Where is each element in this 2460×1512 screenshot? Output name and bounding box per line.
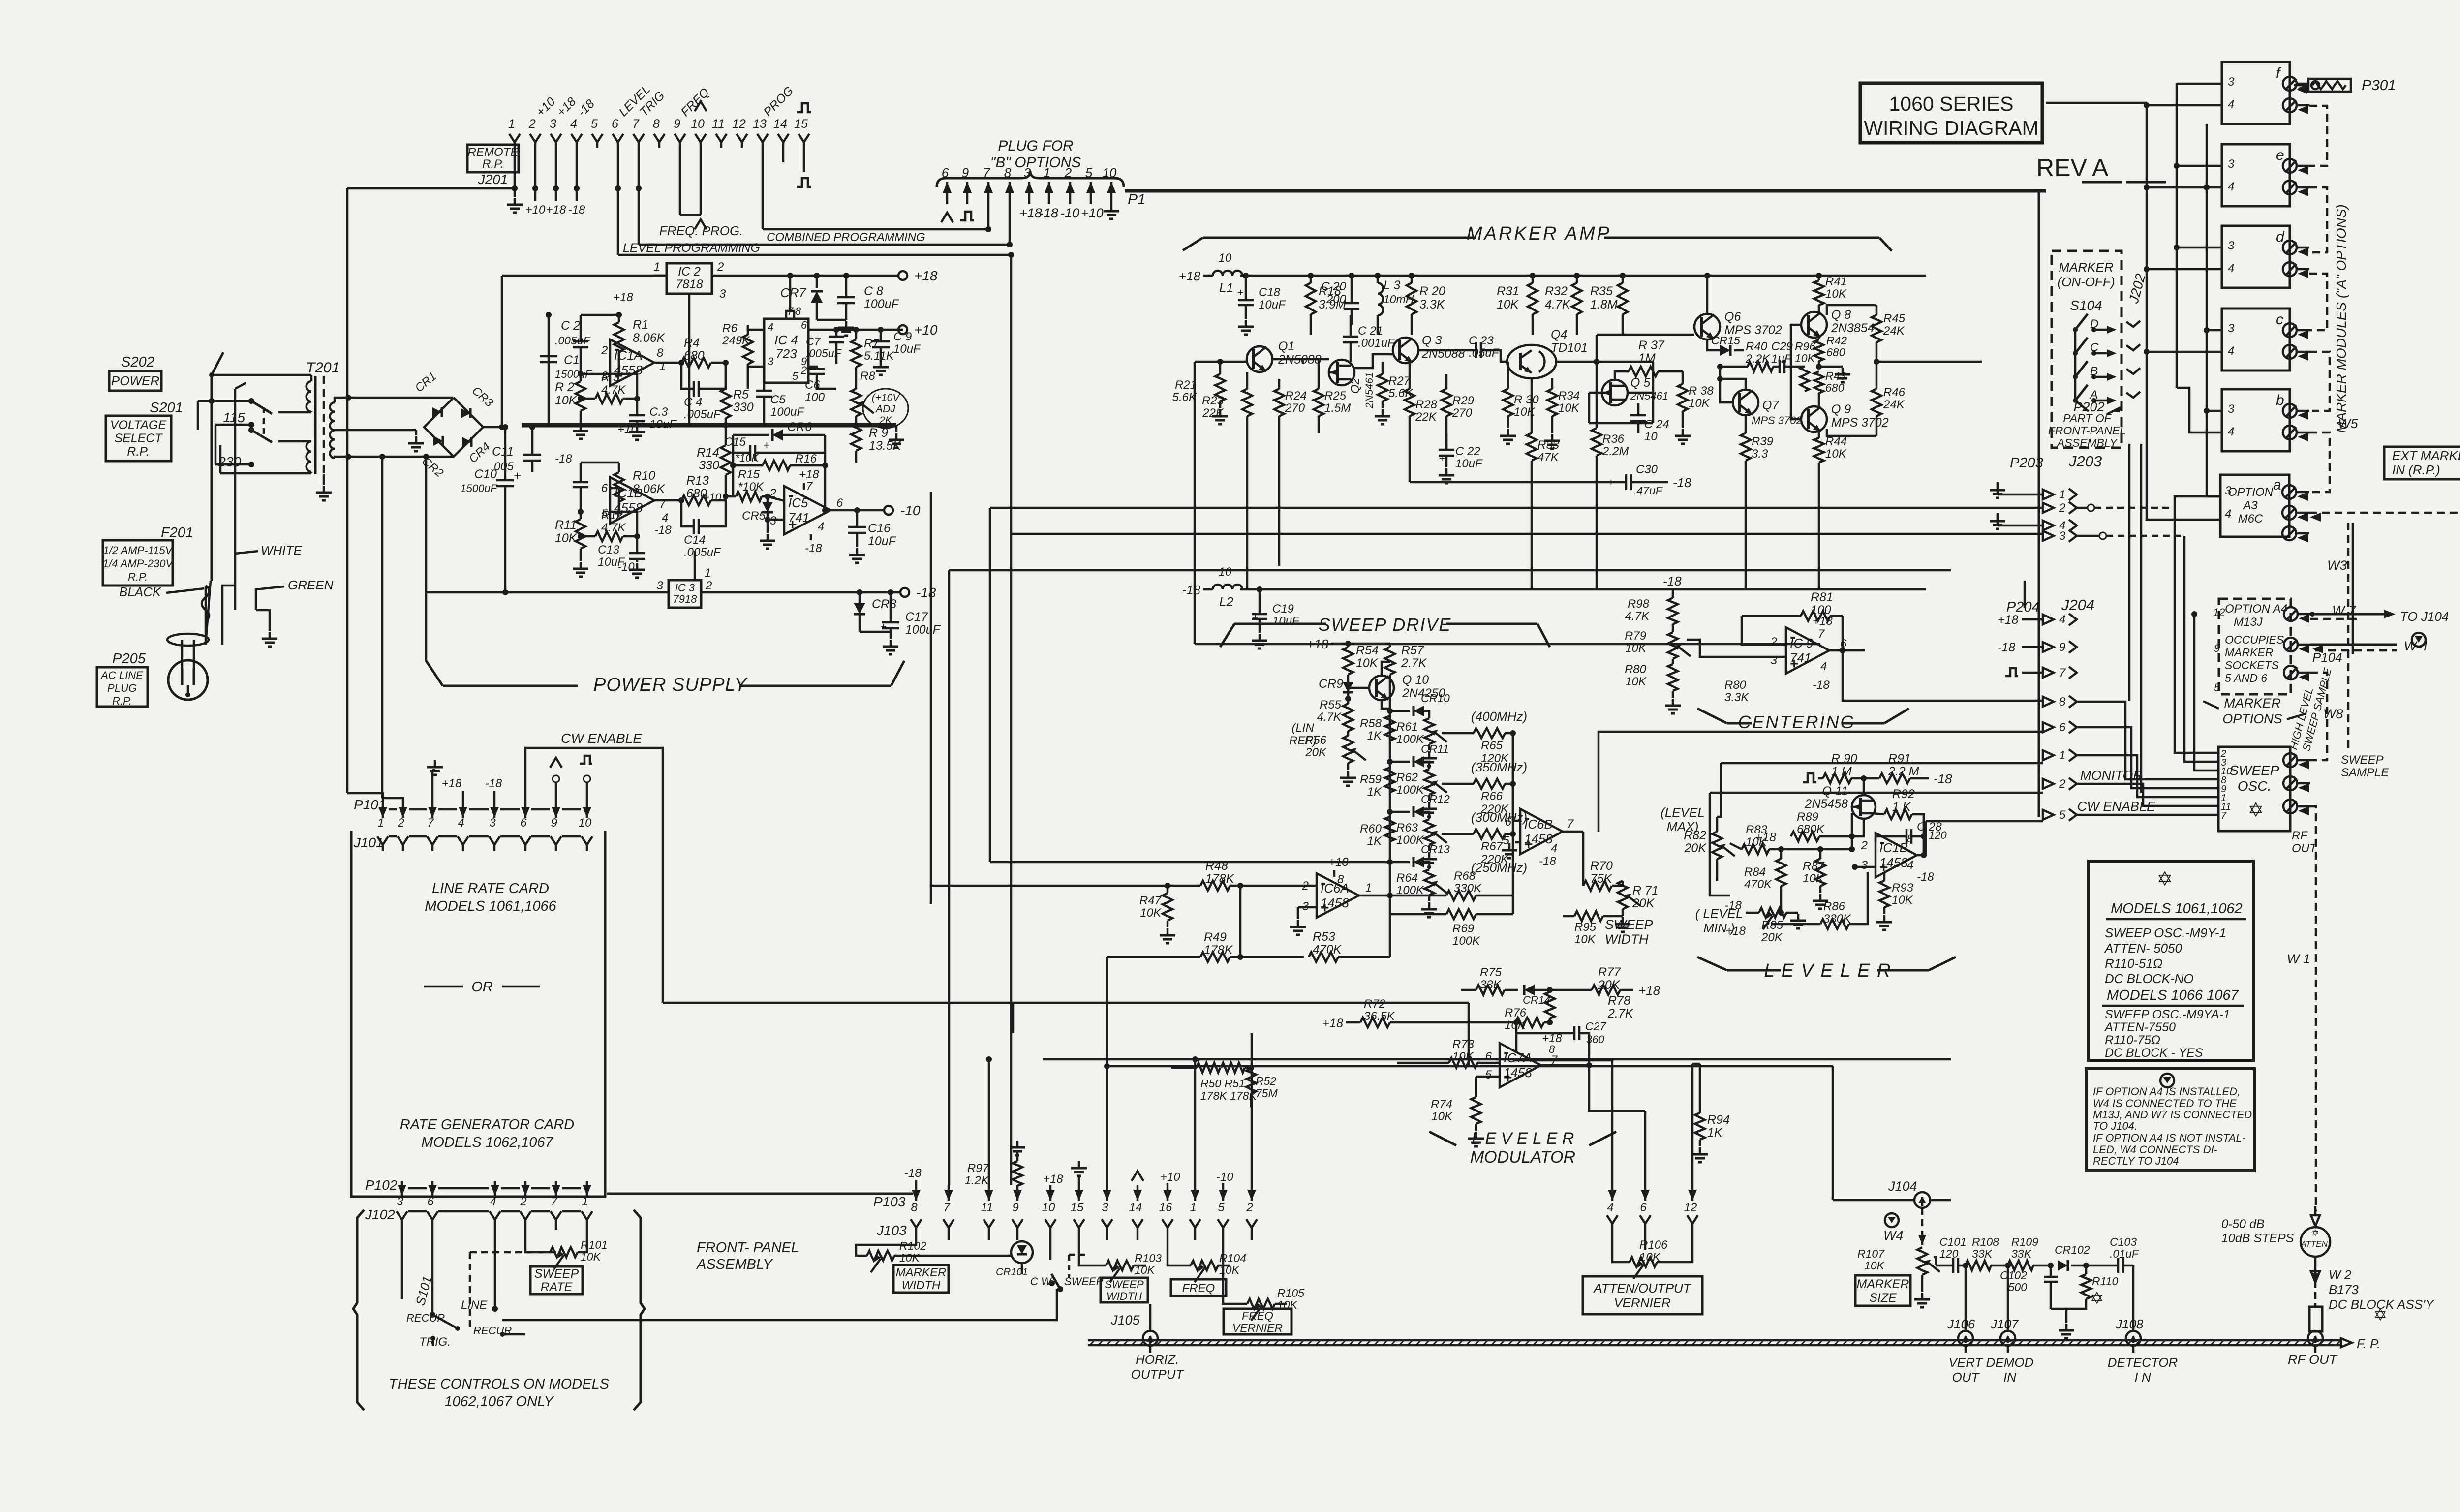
C22 capacitor bbox=[1439, 450, 1454, 456]
svg-text:10K: 10K bbox=[555, 394, 578, 407]
L3 inductor bbox=[1378, 283, 1383, 315]
svg-text:33K: 33K bbox=[1972, 1247, 1993, 1260]
svg-text:P103: P103 bbox=[873, 1194, 906, 1209]
svg-text:CENTERING: CENTERING bbox=[1738, 712, 1855, 732]
title box bbox=[1860, 83, 2042, 143]
svg-text:R53: R53 bbox=[1313, 930, 1335, 944]
svg-text:R33: R33 bbox=[1537, 438, 1560, 452]
W4 wire bbox=[2310, 644, 2397, 646]
svg-text:24K: 24K bbox=[1883, 324, 1905, 338]
svg-text:W5: W5 bbox=[2338, 416, 2358, 431]
svg-text:2: 2 bbox=[800, 364, 807, 376]
svg-text:-18: -18 bbox=[1673, 475, 1691, 490]
svg-text:ADJ: ADJ bbox=[875, 403, 895, 415]
SWEEP RATE box bbox=[530, 1266, 583, 1294]
svg-text:4: 4 bbox=[458, 816, 464, 830]
svg-text:+10: +10 bbox=[1081, 206, 1104, 220]
W7 nabla symbol bbox=[2412, 633, 2426, 647]
svg-text:CR13: CR13 bbox=[1421, 843, 1450, 856]
svg-text:MPS 3702: MPS 3702 bbox=[1831, 416, 1889, 430]
C101 capacitor bbox=[1953, 1258, 1958, 1273]
svg-text:(ON-OFF): (ON-OFF) bbox=[2058, 275, 2115, 289]
svg-text:1: 1 bbox=[582, 1195, 588, 1208]
long wire mid band 2100 bbox=[1012, 1003, 1015, 1033]
svg-text:8: 8 bbox=[911, 1201, 918, 1214]
R105 pot bbox=[1247, 1299, 1275, 1309]
svg-text:(350MHz): (350MHz) bbox=[1471, 760, 1527, 774]
svg-text:4: 4 bbox=[818, 520, 824, 533]
svg-text:10K: 10K bbox=[1746, 835, 1767, 849]
svg-text:1/2 AMP-115V: 1/2 AMP-115V bbox=[103, 544, 174, 556]
Q10 collector wire bbox=[1382, 662, 1390, 675]
P101 pin 9 arrow bbox=[555, 802, 557, 818]
svg-text:1.8M: 1.8M bbox=[1590, 298, 1618, 311]
bridge diode CR2 bbox=[433, 436, 443, 446]
svg-text:2: 2 bbox=[528, 117, 536, 131]
svg-text:7918: 7918 bbox=[673, 593, 698, 605]
svg-text:10: 10 bbox=[1219, 565, 1232, 579]
module a pin4 stub bbox=[2147, 512, 2220, 520]
svg-text:W 2: W 2 bbox=[2329, 1267, 2352, 1282]
svg-text:10K: 10K bbox=[1625, 675, 1647, 688]
IC1B wires bbox=[610, 488, 619, 512]
svg-text:+: + bbox=[1237, 286, 1244, 299]
svg-text:3: 3 bbox=[397, 1195, 403, 1208]
svg-text:b: b bbox=[2276, 392, 2284, 408]
R29 resistor bbox=[1442, 389, 1451, 416]
-10 output terminal bbox=[884, 506, 893, 515]
svg-text:3: 3 bbox=[2228, 239, 2235, 252]
svg-text:+18: +18 bbox=[546, 203, 566, 216]
svg-text:+: + bbox=[1439, 453, 1445, 464]
svg-text:REV: REV bbox=[2036, 154, 2087, 182]
svg-text:.005uF: .005uF bbox=[684, 546, 721, 559]
svg-text:CR9: CR9 bbox=[1319, 677, 1343, 691]
svg-text:ASSEMBLY: ASSEMBLY bbox=[2056, 436, 2118, 449]
svg-text:J108: J108 bbox=[2115, 1317, 2144, 1331]
J201 pin 15 pulse symbol bbox=[797, 103, 811, 112]
R96 resistor bbox=[1800, 367, 1809, 391]
svg-text:J107: J107 bbox=[1990, 1317, 2019, 1331]
bracket left brace bbox=[353, 1210, 364, 1410]
P1 pin 9 arrow bbox=[966, 182, 969, 204]
svg-text:10K: 10K bbox=[1825, 447, 1847, 461]
svg-text:2N3854: 2N3854 bbox=[1831, 321, 1875, 335]
transformer core bbox=[314, 376, 317, 474]
svg-text:6: 6 bbox=[1505, 815, 1512, 829]
svg-text:.47uF: .47uF bbox=[1633, 484, 1663, 497]
P101 pin 1 arrow bbox=[382, 802, 384, 818]
svg-text:1 K: 1 K bbox=[1892, 800, 1911, 814]
coax transmission line bbox=[1088, 1339, 2341, 1342]
+18 output terminal bbox=[898, 271, 907, 280]
long wire J203 pin3 bbox=[1011, 533, 2043, 535]
note nabla symbol bbox=[2160, 1074, 2174, 1087]
marker amp bottom left wires bbox=[1195, 643, 1820, 646]
P103 pin15 ground bbox=[1071, 1161, 1087, 1176]
svg-text:R10: R10 bbox=[633, 469, 655, 483]
svg-text:C101: C101 bbox=[1939, 1235, 1967, 1248]
svg-text:R.P.: R.P. bbox=[112, 695, 132, 707]
svg-text:SWEEP DRIVE: SWEEP DRIVE bbox=[1319, 615, 1452, 635]
R74 resistor bbox=[1471, 1097, 1481, 1124]
IC4 pin6 wire bbox=[808, 329, 903, 331]
svg-text:270: 270 bbox=[1452, 406, 1473, 420]
svg-text:SAMPLE: SAMPLE bbox=[2341, 766, 2389, 779]
R12 resistor bbox=[595, 531, 623, 541]
svg-text:10mH: 10mH bbox=[1384, 293, 1414, 306]
bridge DC out right bbox=[483, 426, 502, 429]
svg-text:6: 6 bbox=[1485, 1050, 1492, 1063]
svg-text:L1: L1 bbox=[1219, 280, 1233, 295]
bridge diode CR1 bbox=[432, 407, 442, 417]
P202 arrow bbox=[2111, 406, 2122, 412]
svg-text:-10: -10 bbox=[1216, 1171, 1233, 1184]
R13 resistor bbox=[681, 495, 711, 505]
R41 resistor bbox=[1814, 280, 1824, 305]
power supply bracket right bbox=[740, 685, 891, 687]
R40 resistor bbox=[1748, 362, 1773, 371]
svg-text:R79: R79 bbox=[1625, 629, 1646, 643]
svg-text:R64: R64 bbox=[1396, 871, 1418, 885]
J101 dashes bbox=[389, 835, 397, 838]
svg-text:ATTEN-7550: ATTEN-7550 bbox=[2104, 1020, 2176, 1034]
P102 dashes bbox=[408, 1187, 427, 1190]
Q5 source box bbox=[1589, 392, 1602, 394]
svg-text:+18: +18 bbox=[799, 468, 819, 481]
svg-text:2: 2 bbox=[601, 344, 608, 357]
svg-text:CR7: CR7 bbox=[780, 285, 807, 300]
connector J201 remote programming header bbox=[509, 134, 520, 142]
svg-text:+10: +10 bbox=[914, 322, 938, 338]
svg-text:6: 6 bbox=[801, 319, 807, 331]
R46 resistor bbox=[1872, 389, 1881, 416]
svg-text:-: - bbox=[1524, 809, 1530, 828]
svg-text:WIRING DIAGRAM: WIRING DIAGRAM bbox=[1864, 117, 2038, 139]
IC1A opamp bbox=[610, 339, 654, 386]
R47 resistor bbox=[1163, 893, 1172, 921]
svg-text:10: 10 bbox=[1042, 1201, 1055, 1214]
svg-text:C 23: C 23 bbox=[1469, 334, 1494, 347]
J103 pin 9 socket bbox=[1012, 1219, 1023, 1228]
svg-text:R108: R108 bbox=[1972, 1235, 1999, 1248]
R92 resistor bbox=[1884, 809, 1912, 819]
svg-text:OPTION A4: OPTION A4 bbox=[2225, 602, 2287, 616]
svg-text:IC 2: IC 2 bbox=[678, 265, 701, 278]
module a pin3 stub bbox=[2207, 472, 2220, 496]
svg-text:3: 3 bbox=[770, 514, 777, 527]
svg-text:16: 16 bbox=[1159, 1201, 1172, 1214]
P1 pin 1 arrow bbox=[1048, 182, 1050, 204]
B options pin 10 ground bbox=[1104, 204, 1119, 219]
svg-text:Q 8: Q 8 bbox=[1831, 308, 1851, 322]
green ground wire bbox=[256, 610, 270, 631]
atten dashed to RF bbox=[2314, 1269, 2317, 1307]
svg-text:ATTEN- 5050: ATTEN- 5050 bbox=[2104, 941, 2183, 956]
svg-text:15: 15 bbox=[1071, 1201, 1084, 1214]
svg-text:14: 14 bbox=[773, 117, 787, 131]
svg-text:5: 5 bbox=[2214, 681, 2220, 694]
svg-text:RF: RF bbox=[2292, 829, 2308, 842]
svg-text:100K: 100K bbox=[1452, 934, 1480, 948]
svg-text:R 2: R 2 bbox=[555, 380, 574, 394]
long wire J204 pin6 bbox=[1599, 732, 2043, 832]
IC6A opamp bbox=[1317, 873, 1359, 918]
R37 resistor bbox=[1629, 367, 1658, 376]
svg-text:10uF: 10uF bbox=[868, 534, 897, 548]
R66 resistor bbox=[1474, 779, 1505, 789]
R79 pot bbox=[1668, 632, 1678, 659]
svg-text:R69: R69 bbox=[1452, 922, 1474, 935]
svg-text:12: 12 bbox=[1684, 1201, 1697, 1214]
svg-text:R110-75Ω: R110-75Ω bbox=[2105, 1033, 2160, 1047]
C18 capacitor bbox=[1238, 300, 1254, 305]
svg-text:AC LINE: AC LINE bbox=[100, 669, 143, 681]
IC1B opamp bbox=[610, 477, 654, 524]
P103 pin 2 arrow bbox=[1251, 1185, 1253, 1201]
svg-text:-18: -18 bbox=[555, 452, 572, 465]
svg-text:2: 2 bbox=[2059, 777, 2065, 791]
P103 pin 9 arrow bbox=[1016, 1185, 1019, 1201]
module f pin3 stub bbox=[2177, 83, 2222, 85]
R10 top wire bbox=[581, 462, 619, 464]
svg-text:PART OF: PART OF bbox=[2063, 412, 2112, 425]
S104 switch A bbox=[2073, 398, 2078, 403]
J104 dashed down bbox=[1921, 1208, 1924, 1245]
svg-text:C30: C30 bbox=[1636, 463, 1658, 476]
R67 resistor bbox=[1474, 829, 1505, 839]
svg-text:P301: P301 bbox=[2362, 77, 2396, 93]
CR13 diode bbox=[1414, 857, 1424, 867]
svg-text:8: 8 bbox=[657, 346, 664, 360]
svg-text:(LIN: (LIN bbox=[1291, 721, 1314, 735]
svg-text:PLUG FOR: PLUG FOR bbox=[998, 138, 1073, 154]
P103 pin 3 arrow bbox=[1106, 1185, 1108, 1201]
module c pin4 stub bbox=[2147, 351, 2222, 353]
svg-text:20K: 20K bbox=[1761, 931, 1783, 944]
svg-text:C16: C16 bbox=[868, 522, 891, 535]
svg-text:C14: C14 bbox=[684, 533, 706, 547]
svg-text:CR5: CR5 bbox=[742, 509, 766, 523]
svg-text:5: 5 bbox=[1085, 165, 1093, 180]
svg-text:IN: IN bbox=[2003, 1370, 2016, 1385]
svg-text:100K: 100K bbox=[1396, 783, 1424, 797]
CR102 diode bbox=[2058, 1260, 2068, 1271]
J201 pin 14 lead bbox=[782, 142, 785, 162]
svg-text:R45: R45 bbox=[1883, 312, 1906, 325]
J102 pin 7 socket bbox=[551, 1211, 561, 1220]
R56 pot bbox=[1343, 736, 1353, 763]
R11 resistor bbox=[576, 519, 585, 549]
svg-text:OUT: OUT bbox=[2292, 842, 2318, 855]
J103 pin 15 socket bbox=[1074, 1219, 1084, 1228]
svg-text:LEVEL PROGRAMMING: LEVEL PROGRAMMING bbox=[623, 241, 760, 255]
svg-text:REMOTE: REMOTE bbox=[468, 146, 519, 159]
R60 resistor bbox=[1385, 817, 1395, 841]
svg-text:B173: B173 bbox=[2329, 1282, 2359, 1297]
J103 pin 5 socket bbox=[1218, 1219, 1229, 1228]
svg-text:100uF: 100uF bbox=[770, 405, 804, 419]
R64 pot bbox=[1424, 869, 1434, 895]
svg-text:3: 3 bbox=[601, 370, 608, 383]
svg-text:10K: 10K bbox=[1625, 642, 1647, 655]
CR12 diode bbox=[1414, 806, 1424, 817]
svg-text:5.6K: 5.6K bbox=[1172, 391, 1197, 404]
marker module c socket arrows bbox=[2298, 330, 2308, 339]
svg-text:-18: -18 bbox=[654, 524, 672, 537]
svg-text:R89: R89 bbox=[1797, 810, 1818, 824]
svg-text:C102: C102 bbox=[2000, 1269, 2027, 1282]
C8 capacitor bbox=[837, 297, 855, 303]
R79 wiper wire bbox=[1687, 640, 1786, 657]
transformer primary upper coil bbox=[307, 381, 311, 412]
J103 pin 14 socket bbox=[1132, 1219, 1143, 1228]
svg-text:MARKER AMP: MARKER AMP bbox=[1467, 223, 1611, 244]
J204 pin 1 bbox=[2043, 750, 2054, 760]
svg-text:R23: R23 bbox=[1202, 394, 1224, 407]
J103 pin 10 socket bbox=[1045, 1219, 1056, 1228]
B options pin8 drop wire bbox=[1009, 204, 1011, 245]
P1 pin 7 arrow bbox=[987, 182, 990, 204]
svg-text:R105: R105 bbox=[1277, 1287, 1304, 1299]
svg-text:R60: R60 bbox=[1360, 822, 1382, 835]
svg-text:+18: +18 bbox=[1179, 269, 1201, 283]
R84 R85 wire bbox=[1780, 898, 1783, 913]
svg-text:1K: 1K bbox=[1367, 834, 1382, 848]
svg-text:-18: -18 bbox=[1724, 899, 1742, 912]
J102 pin 1 socket bbox=[582, 1211, 592, 1220]
R93 resistor bbox=[1879, 881, 1889, 907]
R3 resistor bbox=[595, 394, 623, 403]
svg-text:R56: R56 bbox=[1305, 734, 1327, 747]
svg-text:F. P.: F. P. bbox=[2357, 1336, 2380, 1351]
R85 pot bbox=[1759, 908, 1786, 918]
R30 resistor bbox=[1503, 389, 1513, 416]
C13 capacitor bbox=[629, 553, 645, 559]
svg-text:WIDTH: WIDTH bbox=[902, 1279, 941, 1292]
svg-text:2: 2 bbox=[1861, 839, 1868, 852]
J201 pin 10 ramp symbol below bbox=[695, 219, 707, 229]
marker module b socket upper bbox=[2283, 404, 2297, 418]
svg-text:4: 4 bbox=[662, 511, 668, 525]
J201 freq prog join bbox=[680, 214, 701, 216]
marker amp -18 rail bbox=[1203, 588, 1213, 591]
svg-text:2.2M: 2.2M bbox=[1602, 445, 1629, 458]
J102 pin 6 socket bbox=[427, 1211, 438, 1220]
svg-text:3: 3 bbox=[719, 287, 726, 301]
svg-text:+18: +18 bbox=[442, 777, 462, 790]
svg-text:3.3K: 3.3K bbox=[1724, 691, 1749, 704]
svg-text:2: 2 bbox=[2059, 501, 2065, 515]
svg-text:R86: R86 bbox=[1823, 900, 1845, 913]
P103 pin 16 arrow bbox=[1167, 1185, 1169, 1201]
svg-text:1: 1 bbox=[2059, 749, 2065, 762]
plug leads bbox=[222, 586, 235, 610]
svg-text:3: 3 bbox=[1771, 654, 1778, 667]
svg-text:+18: +18 bbox=[1998, 613, 2019, 627]
svg-text:R59: R59 bbox=[1360, 773, 1382, 786]
svg-text:2.2 M: 2.2 M bbox=[1888, 765, 1919, 778]
svg-text:2.7K: 2.7K bbox=[1607, 1007, 1634, 1020]
svg-text:VERNIER: VERNIER bbox=[1232, 1322, 1283, 1334]
svg-text:CR6: CR6 bbox=[787, 420, 812, 434]
R98 resistor bbox=[1668, 598, 1678, 624]
svg-text:R78: R78 bbox=[1608, 994, 1630, 1008]
marker module e socket lower bbox=[2283, 181, 2297, 194]
P103 pin 15 arrow bbox=[1078, 1185, 1080, 1201]
svg-text:MPS 3702: MPS 3702 bbox=[1752, 414, 1802, 427]
marker options dash bbox=[2203, 701, 2219, 709]
J201 pin 8 stub bbox=[658, 142, 661, 148]
R76 resistor bbox=[1515, 1018, 1544, 1027]
svg-text:VERT: VERT bbox=[1949, 1355, 1984, 1370]
svg-text:-18: -18 bbox=[1998, 641, 2015, 654]
svg-text:CR12: CR12 bbox=[1421, 793, 1450, 805]
EXT MARKER IN box bbox=[2384, 447, 2460, 479]
sweep osc harness bbox=[2077, 702, 2204, 779]
recur long wire bbox=[502, 1289, 1057, 1320]
C10 capacitor bbox=[496, 480, 514, 486]
svg-text:a: a bbox=[2273, 477, 2281, 493]
R83 resistor bbox=[1742, 844, 1769, 854]
J101 pin 6 socket bbox=[520, 836, 531, 845]
module a socket 2 bbox=[2282, 506, 2296, 520]
marker module c socket upper bbox=[2283, 323, 2297, 337]
svg-text:R76: R76 bbox=[1505, 1006, 1527, 1019]
svg-text:20K: 20K bbox=[1305, 746, 1327, 759]
J104 wires bbox=[1833, 1199, 1914, 1202]
svg-text:6: 6 bbox=[836, 496, 843, 510]
J101 pin 7 socket bbox=[427, 836, 438, 845]
svg-text:C1: C1 bbox=[564, 353, 580, 367]
marker amp mid bus bbox=[1195, 361, 1247, 363]
J201 pin 11 stub bbox=[720, 142, 723, 148]
svg-text:7: 7 bbox=[1818, 627, 1825, 641]
svg-text:R42: R42 bbox=[1826, 334, 1847, 347]
CW dashed outline bbox=[1069, 1254, 1088, 1256]
svg-text:Q6: Q6 bbox=[1724, 310, 1741, 324]
svg-text:R4: R4 bbox=[684, 336, 700, 350]
ext marker arrow bbox=[2310, 513, 2321, 522]
marker module c socket lower bbox=[2283, 345, 2297, 359]
IC4 pin3 wire bbox=[748, 367, 764, 389]
svg-text:MONITOR: MONITOR bbox=[2080, 768, 2143, 783]
J201 pin 15 pulse symbol below bbox=[797, 178, 811, 187]
svg-text:4: 4 bbox=[2228, 98, 2234, 111]
marker chain dashed cable 3 bbox=[2309, 274, 2327, 330]
svg-text:R 20: R 20 bbox=[1419, 284, 1445, 298]
svg-text:(+10V: (+10V bbox=[872, 392, 901, 403]
OPTION A4 dashed box bbox=[2219, 599, 2291, 694]
svg-text:9: 9 bbox=[1012, 1201, 1018, 1214]
bridge rectifier diamond bbox=[424, 398, 483, 457]
svg-text:OUTPUT: OUTPUT bbox=[1131, 1367, 1185, 1382]
J101 pin 2 socket bbox=[398, 836, 408, 845]
svg-text:8: 8 bbox=[795, 305, 801, 317]
W4 nabla symbol bbox=[1885, 1213, 1899, 1227]
P101 pin7 ground bbox=[431, 770, 434, 802]
R14 resistor bbox=[721, 445, 731, 475]
svg-text:4: 4 bbox=[1907, 859, 1913, 872]
svg-text:RF OUT: RF OUT bbox=[2288, 1352, 2338, 1367]
svg-text:C 24: C 24 bbox=[1644, 418, 1669, 431]
J107 wire bbox=[2007, 1265, 2009, 1330]
svg-text:4: 4 bbox=[1551, 842, 1557, 855]
long verticals bottom mid bbox=[1611, 1060, 1614, 1185]
module f pin4 stub bbox=[2147, 104, 2222, 107]
svg-text:10K: 10K bbox=[1431, 1110, 1453, 1123]
svg-text:-18: -18 bbox=[805, 542, 822, 555]
